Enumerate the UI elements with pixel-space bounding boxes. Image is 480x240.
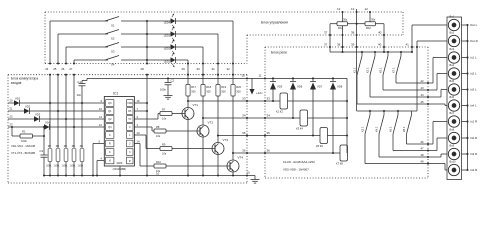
node: net 31 crossing commutator border: [202, 74, 204, 76]
wire: contact K4.1 to net 48: [378, 134, 380, 157]
svg-text:К8.1: К8.1: [402, 126, 406, 132]
svg-text:100n: 100n: [160, 88, 167, 92]
svg-text:36: 36: [242, 149, 246, 153]
wire: net 46 to input jack Bu7: [428, 143, 433, 145]
svg-text:Bu6: Bu6: [450, 95, 455, 99]
svg-text:4026: 4026: [116, 161, 122, 165]
svg-text:In3 R: In3 R: [470, 152, 478, 156]
wire: input row 4 (net 23) from border: [8, 126, 44, 128]
svg-text:R: R: [109, 143, 111, 146]
svg-text:33: 33: [242, 97, 246, 101]
svg-text:In1 R: In1 R: [470, 120, 478, 124]
svg-text:Bu4: Bu4: [450, 63, 455, 67]
transistor VT2: [197, 125, 209, 137]
svg-text:VD2: VD2: [25, 105, 31, 109]
connector Bu4 (In2 L): [448, 68, 459, 79]
wire: right-channel output rail: [357, 110, 417, 112]
svg-text:К1 К2: К1 К2: [276, 110, 283, 114]
svg-text:In3 L: In3 L: [470, 88, 477, 92]
resistor R1 100k: [11, 127, 13, 136]
svg-text:34: 34: [267, 114, 271, 118]
svg-text:25: 25: [53, 67, 57, 71]
svg-text:21: 21: [10, 106, 13, 110]
svg-text:VD3: VD3: [35, 113, 41, 117]
wire: contact K2.1 to net 49: [364, 134, 366, 164]
svg-text:39: 39: [351, 43, 355, 47]
wire: net 36 from VT4 collector to relay coil: [233, 152, 347, 154]
svg-text:300: 300: [206, 89, 211, 93]
svg-text:К5 К6: К5 К6: [316, 144, 323, 148]
svg-text:12: 12: [99, 123, 103, 127]
node: net 46 crossing relay border: [427, 143, 429, 145]
svg-text:S1: S1: [111, 24, 115, 28]
svg-text:12: 12: [337, 7, 341, 11]
svg-text:49: 49: [421, 159, 425, 163]
node: net 24 crossing control box border: [49, 62, 51, 64]
diode VD4: [44, 124, 50, 130]
svg-text:R8: R8: [156, 125, 160, 129]
IC1 bottom pin 8 to ground rail: [119, 166, 121, 176]
svg-text:R9: R9: [162, 143, 166, 147]
diode VD8: [332, 77, 334, 79]
svg-text:LED1: LED1: [164, 60, 171, 63]
svg-text:C2: C2: [171, 79, 175, 83]
node: ground rail leaves box: [246, 174, 248, 176]
wire: net 49 to input jack Bu10: [428, 163, 445, 165]
wire: IC pin 13 to R9: [134, 134, 146, 136]
wire: VT4 emitter to ground rail: [232, 172, 234, 176]
svg-text:11: 11: [99, 115, 102, 119]
connector Bu1 (Out L): [448, 19, 459, 30]
svg-text:Bu5: Bu5: [450, 79, 455, 83]
svg-text:28: 28: [141, 67, 145, 71]
svg-text:40: 40: [378, 43, 382, 47]
svg-text:VT3: VT3: [223, 138, 229, 142]
svg-text:R20: R20: [236, 85, 241, 89]
wire: net 33 from VT1 collector to relay coil: [188, 100, 347, 102]
svg-text:S2: S2: [111, 37, 115, 41]
wire: net 48 to input jack Bu9: [428, 156, 441, 158]
node: select feed joins row 2: [57, 110, 59, 112]
wire: feed from net 26 up to switch row 3: [65, 47, 67, 64]
node: net 32 crossing commutator border: [187, 74, 189, 76]
connector Bu5 (In3 L): [448, 84, 459, 95]
wire: net 45 to input jack Bu6: [428, 103, 445, 105]
block outline: relay block (Блок реле), dashed border: [265, 46, 428, 48]
transistor VT4: [227, 160, 239, 172]
switch S4: [105, 56, 119, 61]
wire: contact K8.1 to net 46: [406, 134, 408, 144]
node: net 49 crossing relay border: [427, 162, 429, 164]
node: D4 anode / R1 junction: [43, 126, 45, 128]
node: net 26 crossing control box border: [65, 62, 67, 64]
wire: contact K5.1 to net 43: [382, 75, 384, 90]
wire: net 35 from VT3 collector to relay coil: [218, 135, 347, 137]
capacitor C3: [43, 136, 45, 155]
svg-text:24: 24: [45, 67, 49, 71]
svg-text:R10: R10: [156, 160, 161, 164]
resistor R7 10k: [158, 113, 160, 115]
wire: contact K6.1 to net 47: [392, 134, 394, 151]
svg-text:Bu9: Bu9: [450, 144, 455, 148]
node: net 48 crossing relay border: [427, 156, 429, 158]
svg-text:К2.1: К2.1: [361, 126, 365, 132]
svg-text:VD6: VD6: [297, 85, 303, 89]
svg-text:22: 22: [10, 114, 13, 118]
IC U1 (IC1): [104, 97, 134, 167]
svg-text:VT1-VT4 - ВС546В: VT1-VT4 - ВС546В: [11, 151, 35, 155]
svg-text:IC1: IC1: [113, 92, 118, 96]
wire: contact K1.1 to net 45: [356, 75, 358, 104]
resistor R9 10k: [146, 148, 160, 150]
connector Bu8 (In2 R): [448, 132, 459, 143]
wire: feed from net 24 up to switch row 1: [49, 21, 51, 64]
svg-text:Out L: Out L: [470, 23, 478, 27]
wire: VT1 emitter to ground rail: [187, 120, 189, 176]
svg-text:In2 R: In2 R: [470, 136, 478, 140]
svg-text:+12v: +12v: [256, 91, 263, 95]
relay contact K7.1: [400, 52, 402, 56]
LED LED1: [147, 59, 171, 61]
wire: VT1 collector: [187, 101, 189, 108]
wire: VT2 collector: [202, 118, 204, 125]
wire: contact K3.1 to net 44: [369, 75, 371, 97]
wire: row 2 to IC pin: [30, 110, 102, 112]
svg-text:VD5: VD5: [277, 85, 283, 89]
wire: LED row 4 to indicator drop x=188: [175, 59, 188, 61]
svg-text:К7 К8: К7 К8: [336, 162, 343, 166]
wire: Out R jack to right rail (net 41): [417, 40, 447, 42]
node: net 45 crossing relay border: [427, 103, 429, 105]
svg-text:VT2: VT2: [208, 121, 214, 125]
node: net 44 crossing relay border: [427, 96, 429, 98]
wire: VT3 collector: [217, 136, 219, 143]
LED LED4: [147, 20, 171, 22]
svg-text:14: 14: [137, 140, 141, 144]
svg-text:VT4: VT4: [238, 156, 244, 160]
svg-text:Out R: Out R: [470, 39, 479, 43]
transistor VT1: [182, 108, 194, 120]
svg-text:In2 L: In2 L: [470, 72, 477, 76]
diode VD6: [292, 77, 294, 79]
svg-text:R19: R19: [221, 85, 226, 89]
svg-text:35: 35: [267, 131, 271, 135]
node: net 25 crossing control box border: [57, 62, 59, 64]
node: net 29 crossing control box border: [187, 62, 189, 64]
svg-text:R17: R17: [191, 85, 196, 89]
relay contact K8.1: [411, 111, 413, 115]
node: net 28 crossing control box border: [146, 62, 148, 64]
svg-text:46: 46: [421, 140, 425, 144]
wire: net 34 from VT2 collector to relay coil: [203, 117, 347, 119]
svg-text:11: 11: [259, 73, 262, 77]
svg-text:In4 L: In4 L: [470, 104, 477, 108]
wire: net 12 / 38 feed through R11 down to left rail: [342, 12, 344, 22]
chassis ground symbol: [247, 175, 255, 177]
node: LED bus tap row 1: [146, 20, 148, 22]
svg-text:S4: S4: [111, 63, 115, 67]
relay coil K3 K4: [300, 110, 308, 126]
relay contact K1.1: [361, 52, 363, 56]
svg-text:16: 16: [137, 99, 141, 103]
IC1 lower-left pins to ground: [93, 143, 104, 145]
resistor R20 300: [232, 64, 234, 85]
LED LED2: [147, 46, 171, 48]
svg-text:R7: R7: [162, 108, 166, 112]
svg-text:К5.1: К5.1: [379, 67, 383, 73]
svg-text:Q3: Q3: [108, 126, 112, 129]
connector Bu2 (Out R): [448, 35, 459, 46]
node: net 31 crossing control box border: [217, 62, 219, 64]
svg-text:100к: 100к: [21, 139, 27, 143]
wire: net 13 vertical through R11/R12 junction: [356, 9, 358, 35]
svg-text:К4.1: К4.1: [375, 126, 379, 132]
relay contact K4.1: [383, 111, 385, 115]
wire: input row 1 (net 20) from border: [8, 102, 14, 104]
svg-text:35: 35: [242, 131, 246, 135]
svg-text:R11: R11: [338, 26, 343, 30]
svg-text:10n: 10n: [77, 93, 82, 97]
switch S1: [105, 17, 119, 22]
resistor R8 10k: [152, 130, 154, 132]
relay contact K3.1: [374, 52, 376, 56]
svg-text:32: 32: [227, 67, 231, 71]
svg-text:VD8: VD8: [337, 85, 343, 89]
svg-text:К1-К8 - ЕСМ16А4-1252: К1-К8 - ЕСМ16А4-1252: [283, 160, 315, 164]
node: LED bus tap row 4: [146, 59, 148, 61]
svg-text:LED4: LED4: [164, 21, 171, 24]
connector Bu3 (In1 L): [448, 52, 459, 63]
block outline: control unit (Блок управления), L-shaped dashed border: [45, 11, 403, 13]
node: net 32 crossing control box border: [232, 62, 234, 64]
resistor R12 30k: [357, 23, 365, 25]
svg-text:In1 L: In1 L: [470, 56, 477, 60]
svg-text:26: 26: [61, 67, 65, 71]
svg-text:37: 37: [324, 31, 328, 35]
svg-text:VD1: VD1: [15, 97, 21, 101]
wire: LED row 3 to indicator drop x=203: [175, 46, 203, 48]
wire: LED bus net 28 into commutator box down to ground rail: [146, 75, 148, 176]
svg-text:10: 10: [242, 73, 246, 77]
IC1 right pins 16,7 to bus: [134, 102, 147, 104]
block outline: input commutator (Блок коммутатора входов), dashed border: [8, 74, 247, 76]
svg-text:23: 23: [10, 122, 13, 126]
svg-text:31: 31: [212, 67, 216, 71]
wire: net 37 down-feed to left rail end: [329, 24, 331, 52]
wire: IC pin 1 to R8: [134, 126, 152, 128]
svg-text:VT1: VT1: [193, 103, 199, 107]
svg-text:13: 13: [351, 7, 355, 11]
wire: net 44 to input jack Bu5: [428, 96, 441, 98]
LED LED3: [147, 33, 171, 35]
svg-text:LED3: LED3: [164, 34, 171, 37]
svg-text:29: 29: [182, 67, 186, 71]
svg-text:12: 12: [365, 7, 369, 11]
relay contact K5.1: [387, 52, 389, 56]
wire: input row 2 (net 21) from border: [8, 110, 24, 112]
node: rail crossing commutator border, net 10: [246, 77, 248, 79]
capacitor C1 10n: [86, 78, 88, 80]
svg-text:36: 36: [267, 149, 271, 153]
diode VD1: [14, 100, 20, 106]
svg-text:34: 34: [242, 114, 246, 118]
svg-text:C3: C3: [40, 149, 44, 153]
svg-text:10: 10: [156, 171, 160, 175]
node: select feed joins row 4: [73, 126, 75, 128]
svg-text:VD1-VD4 - 1N4148: VD1-VD4 - 1N4148: [11, 144, 36, 148]
diode VD7: [312, 77, 314, 79]
connector Bu10 (In4 R): [448, 164, 459, 175]
wire: VT3 emitter to ground rail: [217, 155, 219, 176]
wire: input row 3 (net 22) from border: [8, 118, 34, 120]
resistor R11 30k: [330, 23, 337, 25]
wire: LED row 1 to indicator drop x=233: [175, 20, 233, 22]
svg-text:37: 37: [324, 43, 328, 47]
svg-text:TC: TC: [128, 118, 131, 121]
svg-text:Блок реле: Блок реле: [271, 51, 287, 55]
node: rail crossing relay border, net 11: [264, 77, 266, 79]
svg-text:45: 45: [421, 100, 425, 104]
svg-text:300: 300: [221, 89, 226, 93]
wire: row 1 to IC pin: [20, 102, 102, 104]
svg-text:42: 42: [421, 79, 425, 83]
svg-text:43: 43: [421, 86, 425, 90]
svg-text:Bu10: Bu10: [450, 160, 457, 164]
wire: net 42 to input jack Bu3: [428, 82, 433, 84]
svg-text:In4 R: In4 R: [470, 168, 478, 172]
svg-text:40: 40: [378, 31, 382, 35]
wire: feed from net 27 up to switch row 4: [73, 60, 75, 64]
node: net 30 crossing commutator border: [217, 74, 219, 76]
wire: +12V rail across commutator and relay blocks: [87, 77, 347, 79]
wire: feed from net 25 up to switch row 2: [57, 34, 59, 64]
wire: net 38/39 down-feed to right-channel contact rail: [356, 35, 358, 111]
wire: net 12 stub into control strip at R12: [369, 12, 371, 22]
wire: LED common bus (net 28) inside control box: [146, 21, 148, 64]
resistor R18 300: [202, 64, 204, 85]
resistor R10 10k: [140, 165, 154, 167]
svg-text:Bu2: Bu2: [450, 31, 455, 35]
relay coil K1 K2: [280, 93, 288, 109]
switch S3: [105, 43, 119, 48]
wire: net 47 to input jack Bu8: [428, 150, 437, 152]
svg-text:27: 27: [69, 67, 73, 71]
relay contact K2.1: [369, 111, 371, 115]
svg-text:S3: S3: [111, 50, 115, 54]
node: net 42 crossing relay border: [427, 82, 429, 84]
svg-text:44: 44: [421, 93, 425, 97]
wire: row 4 to IC pin: [50, 126, 102, 128]
svg-text:К7.1: К7.1: [392, 67, 396, 73]
node: net 29 crossing commutator border: [232, 74, 234, 76]
wire: Out L jack to left rail (net 40): [412, 24, 447, 26]
svg-text:VD5-VD8 - 1N4007: VD5-VD8 - 1N4007: [283, 168, 309, 172]
diode VD2: [24, 108, 30, 114]
svg-text:33: 33: [267, 97, 271, 101]
wire: net 40 down-feed from R12 to left rail: [376, 23, 385, 25]
node: net 43 crossing relay border: [427, 89, 429, 91]
connector Bu6 (In4 L): [448, 100, 459, 111]
svg-text:13: 13: [137, 131, 141, 135]
wire: contact K7.1 to net 42: [395, 75, 397, 83]
svg-text:C1: C1: [77, 80, 81, 84]
diode VD3: [34, 116, 40, 122]
pull-down resistors R2-R6 100k: [48, 149, 52, 162]
svg-text:Q0: Q0: [108, 102, 112, 105]
svg-text:30: 30: [197, 67, 201, 71]
node: select feed joins row 1: [49, 102, 51, 104]
svg-text:R18: R18: [206, 85, 211, 89]
svg-text:Bu1: Bu1: [450, 15, 455, 19]
wire: +12V feed down right side of coils: [346, 78, 348, 153]
svg-text:R1: R1: [22, 129, 26, 133]
svg-text:10: 10: [247, 171, 251, 175]
node: net 30 crossing control box border: [202, 62, 204, 64]
svg-text:38: 38: [351, 31, 355, 35]
svg-text:Bu3: Bu3: [450, 47, 455, 51]
wire: net 43 to input jack Bu4: [428, 89, 437, 91]
diode VD5: [272, 77, 274, 79]
resistor R17 300: [187, 64, 189, 85]
transistor VT3: [212, 143, 224, 155]
wire: LED row 2 to indicator drop x=218: [175, 33, 218, 35]
relay coil K5 K6: [320, 128, 328, 144]
wire: VT2 emitter to ground rail: [202, 137, 204, 176]
svg-text:Q2: Q2: [108, 118, 112, 121]
svg-text:К3 К4: К3 К4: [296, 127, 303, 131]
svg-text:(CD4026B): (CD4026B): [113, 167, 127, 171]
node: LED bus tap row 3: [146, 46, 148, 48]
svg-text:входов: входов: [11, 81, 22, 85]
svg-text:C: C: [109, 134, 111, 137]
svg-text:LED2: LED2: [164, 47, 171, 50]
svg-text:Bu7: Bu7: [450, 111, 455, 115]
wire: jack shield bus: [467, 25, 469, 170]
svg-text:VDD: VDD: [127, 102, 132, 105]
jack mounting strip: [447, 17, 462, 180]
svg-text:К6.1: К6.1: [389, 126, 393, 132]
wire: IC pin 14 to R10: [134, 143, 140, 145]
wire: left-channel output rail: [330, 51, 412, 53]
wire: ground rail of commutator box (net 10): [44, 175, 247, 177]
svg-text:38: 38: [337, 43, 341, 47]
svg-text:47: 47: [421, 146, 425, 150]
svg-text:300: 300: [236, 89, 241, 93]
svg-text:Q1: Q1: [108, 110, 112, 113]
svg-text:R12: R12: [366, 26, 371, 30]
wire: select verticals down to pull resistors: [49, 75, 51, 148]
svg-text:20: 20: [10, 98, 13, 102]
resistor R19 300: [217, 64, 219, 85]
svg-text:К1.1: К1.1: [353, 67, 357, 73]
wire: row 3 to IC pin: [40, 118, 102, 120]
node: LED bus tap row 2: [146, 33, 148, 35]
svg-text:Блок управления: Блок управления: [261, 21, 288, 25]
wire: C1 net down to R6: [81, 86, 83, 148]
svg-text:VD7: VD7: [317, 85, 323, 89]
wire: IC pin 2 to R7: [134, 118, 158, 120]
svg-text:К3.1: К3.1: [366, 67, 370, 73]
svg-text:41: 41: [406, 43, 410, 47]
node: net 47 crossing relay border: [427, 149, 429, 151]
node: net 27 crossing control box border: [73, 62, 75, 64]
svg-text:И: И: [109, 160, 111, 163]
capacitor C2 100n with chassis ground: [167, 77, 169, 79]
svg-text:48: 48: [421, 153, 425, 157]
connector Bu7 (In1 R): [448, 116, 459, 127]
connector Bu9 (In3 R): [448, 148, 459, 159]
wire: VT4 collector: [232, 153, 234, 160]
